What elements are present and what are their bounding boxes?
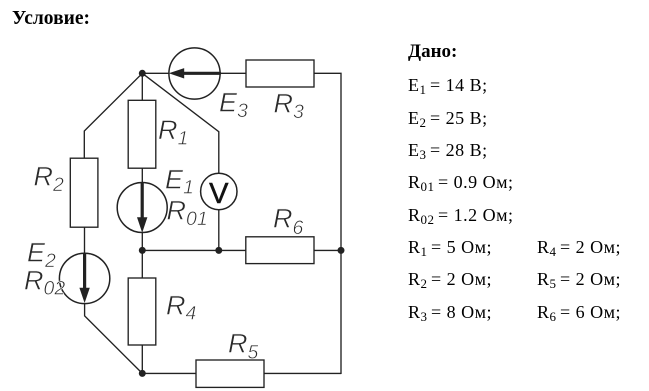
resistor R3 (246, 60, 314, 87)
node E (bottom junction) (139, 370, 146, 377)
value R2 = 2 Ohm (408, 269, 492, 290)
value E1 = 14 V (408, 75, 488, 96)
label R1 (158, 115, 188, 149)
label E2 (27, 238, 56, 273)
node B (mid-left junction) (139, 247, 146, 254)
resistor R1 (128, 100, 156, 168)
svg-text:R2: R2 (34, 162, 65, 197)
svg-text:R4: R4 (166, 291, 197, 325)
wire R2 bottom to E2 top (84, 227, 86, 253)
label R01 (167, 196, 208, 230)
svg-text:R5: R5 (228, 329, 259, 364)
wire R3 right to top-right corner down to node D (314, 73, 341, 250)
wire node B to node C to R6 left (142, 249, 246, 251)
svg-text:V: V (209, 178, 229, 210)
value R01 = 0.9 Ohm (408, 172, 514, 193)
label R5 (228, 329, 259, 364)
wire E3 right to R3 left (220, 72, 246, 74)
value R1 = 5 Ohm (408, 237, 492, 258)
E1 arrow (141, 184, 144, 219)
resistor R2 (70, 158, 98, 227)
EMF source E1 circle (117, 183, 167, 233)
svg-text:E1: E1 (165, 164, 194, 198)
svg-text:R01: R01 (167, 196, 208, 230)
wire R1 bottom to E1 top (141, 168, 143, 182)
wire bottom node E to R5 left (142, 372, 196, 374)
wire E2 bottom diagonal to node E (85, 304, 143, 374)
resistor R5 (196, 360, 264, 387)
wire E1 bottom to node B (141, 233, 143, 251)
label R02 (24, 266, 65, 300)
heading Условие: (12, 8, 90, 30)
svg-text:R6: R6 (273, 204, 304, 239)
value R02 = 1.2 Ohm (408, 205, 514, 226)
node A (top junction) (139, 70, 146, 77)
wire node A diagonal to R2 top (84, 73, 142, 158)
wire node A to R1 top (141, 73, 143, 100)
label R2 (34, 162, 65, 197)
E3 arrow (183, 72, 220, 75)
label R4 (166, 291, 197, 325)
value E3 = 28 V (408, 140, 488, 161)
wire node B to R4 top (141, 250, 143, 278)
EMF source E2 circle (59, 253, 109, 303)
EMF source E3 circle (169, 48, 220, 99)
value R3 = 8 Ohm (408, 302, 492, 323)
wire node A diagonal to voltmeter top (142, 73, 219, 173)
value E2 = 25 V (408, 108, 488, 129)
heading Дано: (408, 41, 457, 63)
wire R4 bottom to node E (141, 345, 143, 373)
label R6 (273, 204, 304, 239)
wire node A to E3 left (142, 72, 169, 74)
wire R6 right to node D (314, 249, 341, 251)
wire voltmeter bottom to node C (218, 210, 220, 251)
value R4 = 2 Ohm (537, 237, 621, 258)
svg-text:R1: R1 (158, 115, 188, 149)
svg-text:E3: E3 (219, 88, 248, 122)
label E3 (219, 88, 248, 122)
wire R5 right to bottom-right corner (264, 372, 341, 374)
voltmeter V (201, 173, 237, 210)
wire right side node D down to bottom-right corner (340, 250, 342, 373)
node D (right junction) (338, 247, 345, 254)
resistor R6 (246, 237, 314, 264)
resistor R4 (128, 278, 156, 345)
svg-text:R3: R3 (274, 89, 305, 123)
value R5 = 2 Ohm (537, 269, 621, 290)
E2 arrow (83, 254, 86, 289)
node C (voltmeter junction) (215, 247, 222, 254)
label R3 (274, 89, 305, 123)
label E1 (165, 164, 194, 198)
value R6 = 6 Ohm (537, 302, 621, 323)
